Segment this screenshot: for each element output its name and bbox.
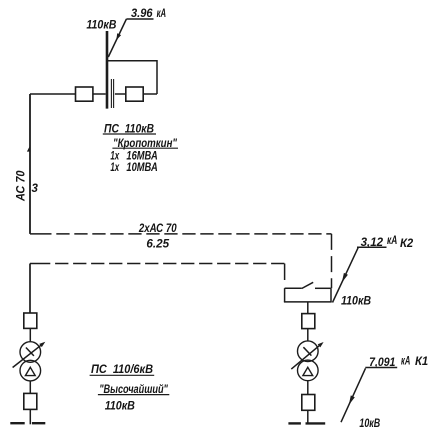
- wire breaker to transformer T1: [29, 328, 31, 341]
- fault arrow K2 3,12 кА: [333, 235, 414, 303]
- wire circuit2 corner to left breaker: [29, 264, 31, 314]
- breaker right lower: [302, 395, 315, 411]
- delta winding: [25, 367, 35, 375]
- svg-text:3: 3: [32, 183, 39, 195]
- svg-text:110кВ: 110кВ: [86, 19, 116, 31]
- svg-text:К1: К1: [415, 356, 428, 368]
- breaker Q1 (left): [76, 87, 93, 101]
- breaker left lower: [24, 393, 37, 409]
- svg-text:1х: 1х: [110, 162, 119, 174]
- wire transformer to lower breaker: [307, 381, 309, 395]
- breaker left upper: [24, 313, 37, 328]
- svg-text:10кВ: 10кВ: [359, 418, 380, 430]
- wire Q1 to bus: [93, 93, 106, 95]
- 110кВ bus Vysochaishy: top edge left segment: [285, 287, 302, 289]
- svg-text:К2: К2: [400, 238, 414, 250]
- overhead line circuit 1 dashed vertical drop: [331, 234, 333, 288]
- fault arrow K1 7,091 кА: [341, 355, 428, 422]
- svg-text:ПС 110/6кВ: ПС 110/6кВ: [91, 364, 153, 376]
- fault arrow K3 3.96 кА: [108, 8, 166, 57]
- wire bypass loop: [108, 61, 157, 94]
- breaker Q2 (right): [126, 87, 143, 101]
- svg-text:кА: кА: [157, 8, 167, 20]
- top edge right segment: [315, 287, 331, 289]
- transformer T1 (110/6): [13, 342, 46, 381]
- busbar 110кВ section 1 (thick): [106, 31, 109, 109]
- wire bus to Q2: [115, 93, 126, 95]
- svg-text:2хАС 70: 2хАС 70: [138, 223, 177, 235]
- svg-text:6.25: 6.25: [146, 238, 169, 250]
- wire incoming feeder left: [30, 93, 76, 95]
- 10кВ busbar (right): [288, 422, 325, 424]
- svg-text:АС 70: АС 70: [16, 170, 28, 202]
- disconnector blade: [302, 282, 314, 288]
- underline Кропоткин: [112, 147, 178, 149]
- bus rect bottom edge (110кВ bus): [284, 301, 332, 303]
- delta winding: [303, 367, 313, 375]
- star stroke in HV winding: [26, 348, 34, 356]
- svg-text:110кВ: 110кВ: [105, 401, 135, 413]
- text block ПС 110/6кВ Высочайший: [91, 364, 168, 413]
- bus rect right edge: [330, 288, 332, 302]
- overhead line circuit 2 dashed vertical drop: [284, 264, 286, 289]
- wire Q2 to loop: [143, 93, 157, 95]
- wire bus to breaker (right chain): [307, 302, 309, 314]
- tap changer arrow: [291, 343, 322, 369]
- flow arrow on line АС 70: [27, 145, 30, 151]
- svg-text:16МВА: 16МВА: [126, 151, 157, 163]
- bus rect left edge: [284, 288, 286, 302]
- transformer T2 (110/10): [291, 341, 323, 381]
- 6кВ busbar (left): [10, 422, 45, 424]
- overhead line circuit 2 dashed horizontal: [30, 263, 50, 265]
- overhead line circuit 1 (2хАС 70) dashed horizontal: [30, 233, 52, 235]
- wire line АС 70 drop: [29, 94, 31, 234]
- breaker right upper: [302, 314, 315, 329]
- wire breaker to 10кВ bus: [307, 410, 309, 424]
- wire transformer to lower breaker: [29, 381, 31, 393]
- underline Высочайший: [98, 394, 169, 396]
- wire breaker to 6кВ bus: [29, 409, 31, 424]
- svg-text:кА: кА: [387, 235, 397, 247]
- wire breaker to transformer T2: [307, 329, 309, 341]
- text block ПС 110кВ Кропоткин: [104, 124, 177, 174]
- svg-text:кА: кА: [401, 355, 410, 367]
- busbar 110кВ section 2 (double thin): [111, 79, 113, 108]
- svg-text:110кВ: 110кВ: [341, 296, 371, 308]
- svg-text:10МВА: 10МВА: [126, 162, 157, 174]
- underline ПС 110/6кВ: [90, 374, 155, 376]
- svg-text:1х: 1х: [110, 151, 119, 163]
- star stroke in HV winding: [303, 347, 311, 355]
- tap changer arrow: [13, 343, 44, 367]
- underline ПС 110кВ: [103, 133, 156, 135]
